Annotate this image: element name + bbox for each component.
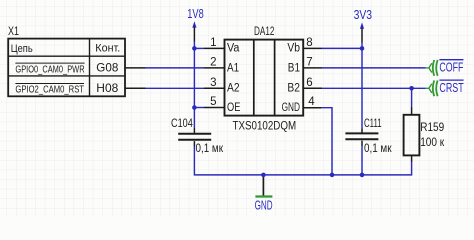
- svg-text:DA12: DA12: [254, 26, 274, 38]
- svg-text:3V3: 3V3: [354, 7, 373, 22]
- junction GND tap: [261, 173, 266, 178]
- svg-text:CRST: CRST: [439, 81, 464, 95]
- junction pin4 drop: [330, 173, 335, 178]
- wire: X1 row1 to pin 2 (A1): [125, 67, 146, 69]
- svg-text:GND: GND: [255, 198, 273, 213]
- svg-text:X1: X1: [8, 24, 19, 38]
- svg-text:B1: B1: [288, 62, 300, 74]
- wire: R159 bottom to GND rail: [362, 162, 412, 175]
- junction at pin 5: [192, 105, 197, 110]
- svg-text:0,1 мк: 0,1 мк: [364, 143, 392, 155]
- svg-text:G08: G08: [96, 60, 118, 74]
- svg-text:COFF: COFF: [439, 61, 463, 75]
- junction R159 top on CRST wire: [409, 86, 414, 91]
- wire: C111 to GND rail: [361, 146, 363, 175]
- svg-text:GPIO2_CAM0_RST: GPIO2_CAM0_RST: [15, 85, 84, 96]
- svg-text:0,1 мк: 0,1 мк: [196, 143, 224, 155]
- svg-text:2: 2: [210, 57, 216, 69]
- pin 5 stub: [194, 107, 204, 109]
- svg-text:1: 1: [210, 37, 216, 49]
- pin 6 stub + wire to CRST: [303, 87, 322, 89]
- op-amp/IC DA12 body: [225, 40, 304, 116]
- svg-text:Va: Va: [227, 43, 240, 55]
- wire: 3V3 vertical net: [361, 43, 363, 129]
- resistor R159: [404, 88, 445, 162]
- power symbol 3V3: [354, 7, 373, 43]
- svg-text:1V8: 1V8: [187, 6, 203, 21]
- junction at pin 8: [360, 46, 365, 51]
- junction at pin 1: [192, 46, 197, 51]
- svg-text:C111: C111: [364, 116, 382, 130]
- pin 8 stub + wire to 3V3: [303, 47, 322, 49]
- svg-text:Цепь: Цепь: [11, 43, 33, 55]
- svg-text:H08: H08: [96, 81, 118, 95]
- wire: C104 to GND rail: [194, 147, 263, 175]
- svg-text:3: 3: [210, 77, 216, 89]
- svg-text:7: 7: [306, 57, 312, 69]
- svg-text:Конт.: Конт.: [95, 43, 120, 55]
- port COFF: [426, 60, 464, 76]
- svg-text:C104: C104: [171, 116, 193, 130]
- svg-text:4: 4: [308, 96, 315, 108]
- connector X1 table outline: [8, 39, 125, 97]
- svg-text:TXS0102DQM: TXS0102DQM: [233, 118, 297, 132]
- capacitor C104: [171, 116, 224, 155]
- pin 4 stub + wire down to GND rail: [303, 107, 322, 109]
- pin 1 stub: [194, 47, 204, 49]
- svg-text:A2: A2: [227, 83, 240, 95]
- svg-text:Vb: Vb: [287, 43, 300, 55]
- svg-text:GND: GND: [282, 102, 300, 114]
- svg-text:8: 8: [306, 37, 312, 49]
- svg-text:A1: A1: [227, 62, 239, 74]
- pin 7 stub + wire to COFF: [303, 67, 322, 69]
- wire: 1V8 vertical net: [193, 42, 195, 129]
- svg-text:100 к: 100 к: [420, 135, 445, 149]
- svg-text:6: 6: [306, 77, 312, 89]
- svg-text:OE: OE: [227, 102, 241, 114]
- svg-text:R159: R159: [420, 120, 444, 134]
- power symbol 1V8: [187, 6, 203, 42]
- wire: GND bottom rail: [263, 174, 362, 176]
- junction C111 bottom: [360, 173, 365, 178]
- wire: X1 row2 to pin 3 (A2): [125, 87, 146, 89]
- svg-text:GPIO0_CAM0_PWR: GPIO0_CAM0_PWR: [15, 64, 84, 75]
- svg-text:B2: B2: [287, 83, 300, 95]
- svg-text:5: 5: [210, 96, 216, 108]
- port CRST: [426, 80, 464, 96]
- ground symbol GND: [255, 175, 273, 213]
- capacitor C111: [345, 116, 392, 155]
